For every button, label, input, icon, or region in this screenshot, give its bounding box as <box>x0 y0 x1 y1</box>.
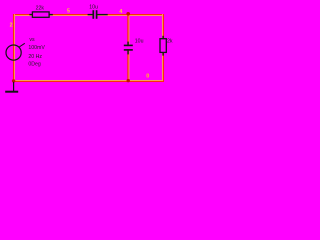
capacitor C1 gap mask <box>94 13 96 16</box>
svg-text:vs: vs <box>29 37 35 43</box>
label leader line <box>19 43 25 47</box>
junction bottom left at source <box>12 79 15 82</box>
svg-text:2: 2 <box>10 22 13 28</box>
resistor R1 <box>29 12 52 17</box>
wire top net highlight <box>13 15 163 17</box>
svg-text:4: 4 <box>119 9 122 15</box>
svg-text:100mV: 100mV <box>28 45 45 51</box>
wire bottom net highlight <box>13 80 163 82</box>
resistor R2 <box>160 36 166 56</box>
junction top node 4 <box>126 12 130 16</box>
AC source V1 <box>6 45 21 60</box>
svg-text:10u: 10u <box>135 38 144 44</box>
junction bottom of shunt branch <box>127 79 130 82</box>
wire right vertical <box>163 14 165 82</box>
svg-text:0: 0 <box>146 74 149 80</box>
capacitor C1 <box>88 10 108 19</box>
svg-text:0Deg: 0Deg <box>28 62 41 68</box>
wire bottom net <box>13 81 164 83</box>
wire top net <box>13 14 164 16</box>
wire shunt branch <box>127 15 129 81</box>
wire right vertical highlight <box>162 14 164 81</box>
svg-text:5: 5 <box>67 9 70 15</box>
shunt branch capacitor gap mask <box>126 46 131 49</box>
wire left vertical <box>13 14 15 82</box>
wire left vertical highlight <box>14 14 16 81</box>
ground <box>5 82 18 92</box>
svg-text:22k: 22k <box>36 5 45 11</box>
svg-text:10u: 10u <box>89 4 98 10</box>
background <box>0 0 182 102</box>
capacitor C2 <box>124 42 133 55</box>
svg-text:2k: 2k <box>167 39 173 45</box>
wire shunt branch highlight <box>128 15 130 81</box>
svg-text:20 Hz: 20 Hz <box>28 54 42 60</box>
